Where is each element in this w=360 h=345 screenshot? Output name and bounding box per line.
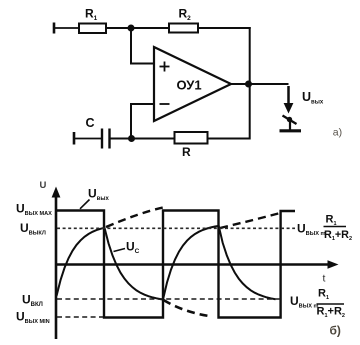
label right upper Uvyh m R1/(R1+R2) — [297, 214, 352, 243]
svg-text:а): а) — [333, 126, 342, 138]
label right lower Uvyh m R1/(R1+R2) — [290, 288, 345, 319]
node A junction dot — [128, 25, 135, 32]
dashed envelope upper segment 1 — [106, 208, 163, 228]
svg-text:R: R — [182, 145, 191, 159]
node OUT junction dot — [245, 81, 252, 88]
wire right vertical rail — [249, 27, 251, 140]
resistor R2 — [169, 24, 198, 33]
dotted threshold line Uvykl — [57, 227, 295, 229]
label R — [182, 145, 191, 159]
axis U (vertical) — [52, 187, 61, 340]
label b) — [330, 324, 341, 338]
terminal bar under indicator — [280, 129, 302, 132]
label C — [86, 116, 95, 130]
wire T2 to C — [74, 138, 101, 140]
label Uvkl — [22, 293, 43, 309]
indicator symbol at output — [283, 116, 297, 131]
node B junction dot — [128, 135, 135, 142]
svg-text:t: t — [323, 273, 326, 285]
wire op-amp output to arrow tap — [231, 83, 289, 85]
wire R to right rail — [208, 138, 250, 140]
label R1 — [85, 7, 98, 23]
label t axis — [323, 273, 326, 285]
wire node A to + input — [131, 30, 154, 64]
label OU1 — [177, 78, 202, 93]
label R2 — [179, 7, 192, 23]
svg-text:R1+R2: R1+R2 — [324, 229, 352, 242]
svg-text:б): б) — [330, 324, 341, 338]
capacitor voltage curve Uc — [57, 226, 276, 300]
dashed envelope lower segment — [164, 300, 213, 317]
wire C to R through node B — [111, 138, 175, 140]
label Uvyh (circuit) — [302, 90, 324, 106]
input terminal T2 (bottom left) — [73, 132, 76, 145]
dotted threshold line Uvkl — [57, 298, 283, 300]
input terminal T1 (top left) — [53, 23, 56, 34]
square wave Uvyh trace — [57, 211, 296, 318]
dashed envelope upper segment 2 — [220, 213, 282, 229]
wire minus input to node B — [131, 104, 154, 137]
op-amp OU1 body — [154, 47, 231, 121]
label U axis — [40, 180, 47, 191]
capacitor C — [102, 129, 110, 149]
op-amp plus pin mark — [160, 62, 170, 72]
wire R1 to R2 through node A — [106, 27, 169, 29]
svg-text:U: U — [40, 180, 47, 191]
svg-text:C: C — [86, 116, 95, 130]
output voltage arrow Uvyh — [284, 86, 294, 114]
label Uvyh min — [16, 310, 50, 326]
svg-text:R1+R2: R1+R2 — [317, 306, 345, 319]
label Uc with leader — [114, 240, 140, 256]
label a) — [333, 126, 342, 138]
wire T1 to R1 — [54, 27, 79, 29]
label Uvyh on waveform with leader — [80, 187, 109, 209]
axis t (horizontal) — [56, 260, 339, 269]
resistor R — [175, 132, 208, 144]
resistor R1 — [79, 24, 106, 34]
label Uvyh max — [16, 202, 52, 218]
op-amp minus pin mark — [160, 103, 170, 105]
wire R2 to right rail corner — [198, 27, 251, 29]
label Uvykl — [20, 221, 46, 237]
svg-text:ОУ1: ОУ1 — [177, 78, 202, 93]
dotted line Uvyh min — [57, 316, 103, 318]
